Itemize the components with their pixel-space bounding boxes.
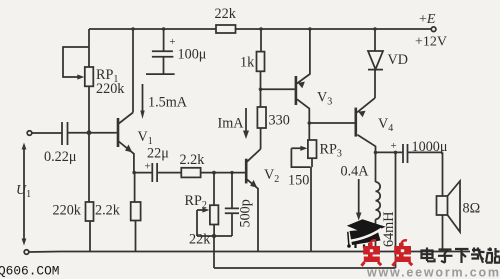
svg-text:2.2k: 2.2k — [95, 203, 121, 219]
wire: left bias chain vertical — [89, 29, 90, 251]
svg-text:1.5mA: 1.5mA — [148, 95, 188, 111]
watermark chongchong char2 — [393, 240, 413, 266]
watermark text dianzi xiazaizhan — [422, 248, 500, 264]
svg-text:+E: +E — [419, 12, 436, 27]
terminal +E — [431, 27, 436, 32]
wire: 1k chain — [260, 29, 263, 107]
transistor V2 — [246, 149, 260, 251]
svg-text:220k: 220k — [53, 203, 82, 219]
resistor 2.2k emitter — [131, 202, 141, 221]
node: emitter junction — [132, 171, 136, 175]
wire: feedback bottom run — [214, 267, 396, 269]
transistor V3 — [296, 29, 310, 140]
svg-text:8Ω: 8Ω — [463, 201, 481, 217]
wire: feedback vertical — [395, 152, 397, 268]
inductor 64mH — [376, 152, 381, 251]
wire: V1 emitter chain — [134, 173, 137, 251]
capacitor 1000u — [391, 140, 408, 163]
wire: node to V3 base — [261, 88, 295, 90]
resistor 2.2k coupling — [181, 168, 200, 178]
node: rail-collector — [131, 27, 134, 30]
wire: 500p top lead — [231, 173, 233, 209]
node: base junction — [87, 130, 92, 135]
input terminal top — [27, 131, 32, 136]
current arrow 1mA — [243, 108, 249, 139]
wire: cap to V1 base — [68, 132, 117, 134]
svg-text:0.22μ: 0.22μ — [44, 149, 77, 165]
svg-text:22k: 22k — [189, 232, 211, 248]
svg-text:22μ: 22μ — [147, 146, 169, 162]
resistor 330 — [257, 107, 266, 128]
wire: top supply rail — [89, 28, 431, 30]
wire: V2 collector up — [260, 128, 262, 149]
node: rail-cap — [162, 27, 165, 30]
node: RP2 tap — [212, 171, 216, 175]
wire: to V4 base — [309, 122, 354, 124]
watermark chongchong char1 — [362, 240, 382, 266]
current arrow 1.5mA — [140, 84, 144, 119]
speaker — [437, 181, 461, 251]
wire: RP2 top lead — [213, 173, 215, 205]
svg-text:1k: 1k — [240, 55, 255, 71]
node: 500p tap — [230, 171, 233, 174]
node: rail 1k — [259, 27, 262, 30]
svg-text:0.4A: 0.4A — [341, 164, 370, 180]
capacitor 100u — [146, 29, 176, 74]
node: V3 collector junction — [308, 121, 312, 125]
wire: V1 collector to rail — [132, 29, 134, 113]
svg-text:100μ: 100μ — [178, 47, 207, 63]
wire: emitter to 22u — [134, 172, 152, 174]
node: rail V3 — [308, 27, 311, 30]
input terminal bottom — [24, 250, 29, 255]
node: feedback top — [394, 151, 398, 155]
node: V3 base node — [259, 88, 263, 92]
watermark graduation cap — [347, 219, 386, 248]
svg-text:+12V: +12V — [415, 35, 447, 50]
svg-text:ImA: ImA — [218, 116, 245, 132]
wire: RP2 500p bottom tie — [197, 235, 232, 237]
wire: input to cap — [32, 132, 62, 134]
diode VD — [368, 29, 383, 98]
svg-text:220k: 220k — [96, 81, 125, 97]
svg-text:+: + — [145, 161, 151, 173]
potentiometer RP1 — [63, 47, 93, 86]
svg-text:VD: VD — [388, 52, 409, 68]
svg-text:150: 150 — [288, 173, 309, 189]
transistor V1 — [118, 113, 134, 173]
transistor V4 — [356, 98, 376, 152]
svg-text:64mH: 64mH — [381, 212, 397, 247]
wire: 2.2k to V2 base — [201, 172, 245, 174]
svg-text:2.2k: 2.2k — [180, 152, 206, 168]
svg-text:330: 330 — [269, 113, 290, 129]
capacitor 22u — [145, 161, 158, 183]
capacitor 500p — [225, 208, 239, 236]
svg-text:+: + — [169, 36, 175, 48]
svg-text:500p: 500p — [238, 199, 254, 227]
resistor 220k — [86, 202, 94, 221]
node: rail VD — [373, 27, 376, 30]
wire: output node to cap — [376, 151, 403, 153]
svg-text:Q606.COM: Q606.COM — [0, 264, 59, 279]
wire: 22u to 2.2k — [157, 172, 181, 174]
current arrow 0.4A — [356, 179, 362, 221]
potentiometer RP2 — [197, 205, 218, 236]
svg-text:+: + — [391, 140, 397, 152]
capacitor 0.22u — [62, 122, 68, 145]
wire: bottom ground rail — [29, 251, 470, 254]
voltage arrow U1 — [22, 143, 27, 246]
wire: cap to speaker — [408, 152, 443, 196]
svg-text:22k: 22k — [215, 6, 237, 22]
potentiometer RP3 — [291, 140, 316, 251]
resistor 1k — [257, 52, 265, 72]
wire: feedback drop — [213, 236, 215, 268]
resistor 22k top — [216, 25, 236, 33]
svg-text:www.eeworm.com: www.eeworm.com — [366, 266, 500, 279]
node: feedback junction — [212, 234, 216, 238]
node: output — [374, 151, 378, 155]
